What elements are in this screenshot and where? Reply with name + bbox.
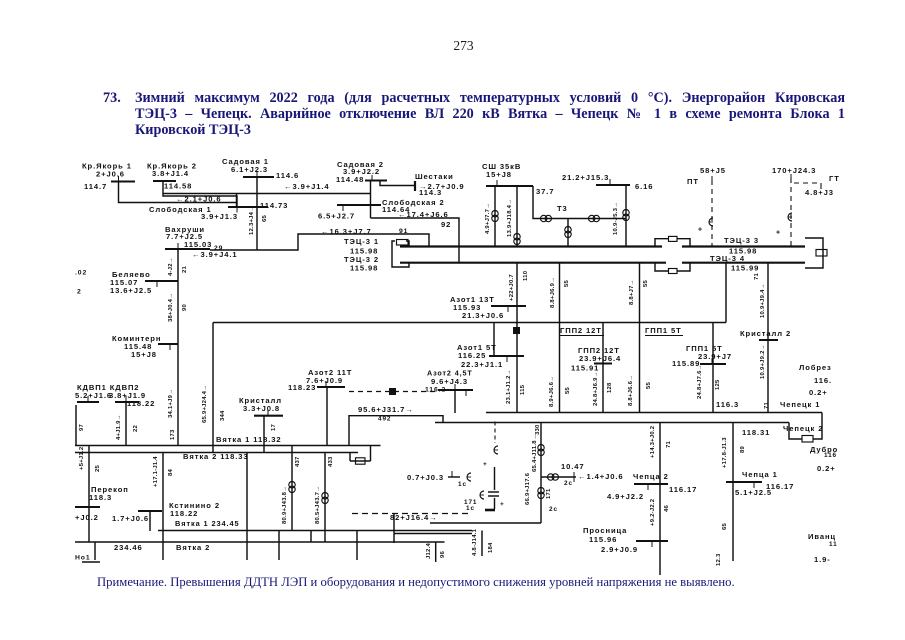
- svg-text:Чепца 1: Чепца 1: [742, 470, 778, 479]
- breaker bypass mid top: [655, 239, 669, 247]
- wire Кр.Якорь 1 - Слободская 1: [119, 182, 237, 203]
- svg-text:+: +: [698, 227, 703, 234]
- svg-text:Вятка 2: Вятка 2: [176, 543, 210, 552]
- svg-text:10.9+J9.2→: 10.9+J9.2→: [760, 344, 766, 379]
- svg-text:8.8+J6.6→: 8.8+J6.6→: [628, 375, 634, 406]
- svg-text:118.22: 118.22: [127, 399, 155, 408]
- svg-text:ТЭЦ-3 4: ТЭЦ-3 4: [710, 254, 745, 263]
- svg-text:55: 55: [565, 386, 571, 394]
- svg-text:96: 96: [440, 550, 446, 558]
- svg-text:3.8+J1.4: 3.8+J1.4: [152, 169, 189, 178]
- svg-text:65.9+J24.4→: 65.9+J24.4→: [202, 385, 208, 423]
- svg-text:114.7: 114.7: [84, 182, 107, 191]
- svg-text:+: +: [500, 501, 505, 508]
- svg-text:115.98: 115.98: [350, 263, 378, 272]
- svg-text:6.1+J2.3: 6.1+J2.3: [231, 165, 268, 174]
- svg-text:15+J8: 15+J8: [486, 170, 512, 179]
- svg-text:2: 2: [77, 288, 82, 295]
- wire Слободская 2 - ТЭЦ bus 92: [371, 218, 460, 263]
- svg-text:115.96: 115.96: [589, 535, 617, 544]
- svg-text:Шестаки: Шестаки: [415, 172, 454, 181]
- svg-text:116.17: 116.17: [669, 485, 697, 494]
- svg-text:1c: 1c: [466, 505, 475, 512]
- svg-text:80.5+J43.7→: 80.5+J43.7→: [315, 486, 321, 524]
- svg-text:115.89: 115.89: [672, 359, 700, 368]
- wire drop 437: [291, 446, 293, 531]
- wire 21.2 drop: [625, 185, 627, 247]
- svg-text:ПТ: ПТ: [687, 177, 699, 186]
- svg-text:37.7: 37.7: [536, 187, 554, 196]
- bus Вятка 2 234 line: [75, 541, 445, 543]
- svg-text:10.9-J5.3→: 10.9-J5.3→: [613, 202, 619, 235]
- svg-text:114.58: 114.58: [164, 181, 192, 190]
- svg-text:55: 55: [564, 279, 570, 287]
- svg-text:125: 125: [715, 379, 721, 390]
- svg-text:Иванц: Иванц: [808, 532, 836, 541]
- svg-text:Лобрез: Лобрез: [799, 363, 832, 372]
- wire feeder 84: [162, 453, 164, 561]
- wire Садовая 2 - Шестаки: [380, 181, 415, 186]
- svg-text:ТЭЦ-3 3: ТЭЦ-3 3: [724, 236, 759, 245]
- svg-text:23.9+J7: 23.9+J7: [698, 352, 732, 361]
- svg-text:←3.9+J1.4: ←3.9+J1.4: [284, 182, 329, 191]
- wire trunk 2c: [540, 423, 542, 524]
- svg-text:4.9+J2.2: 4.9+J2.2: [607, 492, 644, 501]
- svg-text:2c: 2c: [564, 480, 573, 487]
- svg-text:65: 65: [262, 214, 268, 222]
- svg-text:114.73: 114.73: [260, 201, 288, 210]
- svg-text:+9.2-J2.2: +9.2-J2.2: [650, 498, 656, 526]
- svg-text:0.2+: 0.2+: [817, 464, 836, 473]
- svg-text:115: 115: [520, 384, 526, 395]
- wire feeder ГПП2 12Т: [602, 323, 604, 413]
- svg-text:91: 91: [399, 228, 408, 235]
- svg-text:115.91: 115.91: [571, 363, 599, 372]
- wire КДВП1 drop: [75, 405, 77, 446]
- svg-text:97: 97: [79, 423, 85, 431]
- svg-text:Вятка 2 118.33: Вятка 2 118.33: [183, 452, 249, 461]
- breaker Чепецк loop: [789, 423, 802, 440]
- svg-text:2+J0.6: 2+J0.6: [96, 169, 125, 178]
- svg-text:114.48: 114.48: [336, 175, 364, 184]
- svg-text:←3.9+J4.1: ←3.9+J4.1: [192, 250, 237, 259]
- svg-text:34.1+J9→: 34.1+J9→: [168, 389, 174, 418]
- svg-text:21: 21: [182, 265, 188, 273]
- svg-text:Чепецк 1: Чепецк 1: [780, 400, 820, 409]
- svg-text:4.8+J3: 4.8+J3: [805, 188, 834, 197]
- svg-text:25: 25: [95, 464, 101, 472]
- svg-text:4.9+J7.7→: 4.9+J7.7→: [485, 203, 491, 234]
- svg-text:15+J8: 15+J8: [131, 350, 157, 359]
- svg-text:+22+J0.7: +22+J0.7: [509, 274, 515, 301]
- svg-text:ГПП1 5Т: ГПП1 5Т: [645, 326, 682, 335]
- svg-text:114.3: 114.3: [419, 188, 442, 197]
- wire Садовая 2 drop: [370, 181, 372, 219]
- svg-text:90: 90: [182, 303, 188, 311]
- wire Азот2 11Т drop: [326, 387, 328, 446]
- svg-text:Но1: Но1: [75, 554, 91, 561]
- svg-text:95.6+J31.7→: 95.6+J31.7→: [358, 405, 414, 414]
- svg-text:4.8-J14.1: 4.8-J14.1: [472, 528, 478, 556]
- svg-text:65.4+J11.8→: 65.4+J11.8→: [532, 434, 538, 472]
- svg-text:13.9+J18.4→: 13.9+J18.4→: [507, 199, 513, 237]
- svg-text:9.6+J4.3: 9.6+J4.3: [431, 377, 468, 386]
- svg-text:65: 65: [722, 522, 728, 530]
- svg-text:116.: 116.: [814, 376, 832, 385]
- svg-text:114.6: 114.6: [276, 171, 299, 180]
- svg-text:17: 17: [271, 423, 277, 431]
- breaker Вятка loop: [349, 453, 351, 462]
- svg-text:←1.4+J0.6: ←1.4+J0.6: [578, 472, 623, 481]
- generator 2: [480, 491, 484, 499]
- svg-text:184: 184: [488, 542, 494, 553]
- bus Чепецк 2 line: [435, 422, 789, 424]
- svg-text:24.8+J6.9→: 24.8+J6.9→: [593, 371, 599, 406]
- svg-text:.02: .02: [75, 269, 87, 276]
- svg-text:J12.4: J12.4: [426, 543, 432, 559]
- svg-text:330: 330: [535, 424, 541, 435]
- svg-text:116.25: 116.25: [458, 351, 486, 360]
- svg-text:80.9+J43.8→: 80.9+J43.8→: [282, 486, 288, 524]
- svg-text:71: 71: [754, 272, 760, 280]
- svg-text:22.3+J1.1: 22.3+J1.1: [461, 360, 503, 369]
- svg-text:116.3: 116.3: [716, 400, 739, 409]
- svg-text:Т3: Т3: [557, 204, 568, 213]
- svg-text:Просница: Просница: [583, 526, 627, 535]
- svg-text:8.9+J6.6→: 8.9+J6.6→: [549, 376, 555, 407]
- svg-text:+14.3+J0.2: +14.3+J0.2: [650, 425, 656, 458]
- svg-text:0.7+J0.3: 0.7+J0.3: [407, 473, 444, 482]
- svg-text:38+J0.4→: 38+J0.4→: [168, 293, 174, 322]
- svg-text:3.9+J1.3: 3.9+J1.3: [201, 212, 238, 221]
- wire feeder 55 left: [559, 263, 561, 413]
- svg-text:110: 110: [523, 270, 529, 281]
- svg-text:92: 92: [441, 220, 451, 229]
- svg-text:21.3+J0.6: 21.3+J0.6: [462, 311, 504, 320]
- svg-text:2c: 2c: [549, 506, 558, 513]
- stub x95: [94, 542, 96, 560]
- svg-text:118.22: 118.22: [170, 509, 198, 518]
- generator capacitor branch: [494, 467, 496, 490]
- svg-text:55: 55: [643, 279, 649, 287]
- svg-text:+5+J1.2: +5+J1.2: [79, 446, 85, 470]
- svg-text:←2.1+J0.6: ←2.1+J0.6: [176, 194, 221, 203]
- wire Кристалл drop: [263, 416, 265, 453]
- svg-text:344: 344: [220, 410, 226, 421]
- svg-text:21.2+J15.3: 21.2+J15.3: [562, 173, 609, 182]
- svg-text:ТЭЦ-3 1: ТЭЦ-3 1: [344, 237, 379, 246]
- svg-text:58+J5: 58+J5: [700, 166, 726, 175]
- svg-text:←16.3+J7.7: ←16.3+J7.7: [321, 227, 372, 236]
- bus Вятка 1 234 line: [158, 530, 472, 532]
- svg-text:170+J24.3: 170+J24.3: [772, 166, 816, 175]
- wire drop x247: [246, 453, 248, 561]
- svg-text:116: 116: [824, 452, 837, 459]
- bus Чепецк 1 line: [486, 412, 822, 414]
- bus Вятка 2 line: [75, 452, 358, 454]
- svg-text:12.3: 12.3: [716, 553, 722, 566]
- svg-text:115.99: 115.99: [731, 263, 759, 272]
- svg-text:234.46: 234.46: [114, 543, 143, 552]
- wire Перекоп feeder: [88, 446, 90, 543]
- wire Вахруши - ТЭЦ-3 91: [210, 234, 429, 250]
- svg-text:3.3+J0.8: 3.3+J0.8: [243, 404, 280, 413]
- bus parallel right segment: [394, 533, 472, 535]
- svg-text:13.6+J2.5: 13.6+J2.5: [110, 286, 152, 295]
- wire КДВП2 drop: [125, 402, 127, 446]
- stub x357: [356, 531, 358, 561]
- wire feeder Кристалл 2: [767, 263, 769, 413]
- wire feeder 55 right: [639, 263, 641, 413]
- svg-text:+J0.2: +J0.2: [75, 513, 99, 522]
- svg-text:8.8+J7→: 8.8+J7→: [629, 279, 635, 305]
- svg-text:4+J1.9→: 4+J1.9→: [116, 414, 122, 440]
- wire Кр.Якорь 2 drop: [163, 181, 237, 208]
- svg-text:Вятка 1 118.32: Вятка 1 118.32: [216, 435, 282, 444]
- wire feeder Чепца 2: [659, 423, 661, 576]
- svg-text:24.8+J7.6→: 24.8+J7.6→: [697, 364, 703, 399]
- svg-text:118.3: 118.3: [89, 493, 112, 502]
- svg-text:Вятка 1 234.45: Вятка 1 234.45: [175, 519, 240, 528]
- svg-text:8.8+J6.9→: 8.8+J6.9→: [550, 277, 556, 308]
- wire dashed drop 1c: [494, 422, 496, 444]
- svg-text:+: +: [483, 461, 488, 468]
- wire Слободская 1 - Садовая 2: [163, 193, 371, 195]
- svg-text:5.1+J2.5: 5.1+J2.5: [735, 488, 772, 497]
- svg-text:118.31: 118.31: [742, 428, 770, 437]
- wire feeder ГПП1 5Т: [712, 323, 714, 413]
- svg-text:492: 492: [378, 416, 391, 423]
- svg-text:71: 71: [764, 401, 770, 409]
- svg-text:23.1+J1.2→: 23.1+J1.2→: [506, 369, 512, 404]
- svg-text:115.03: 115.03: [184, 240, 212, 249]
- svg-text:ГПП2 12Т: ГПП2 12Т: [560, 326, 602, 335]
- svg-text:+17.8-J1.3: +17.8-J1.3: [722, 437, 728, 468]
- svg-text:55: 55: [646, 381, 652, 389]
- wire drop x279: [278, 531, 280, 561]
- svg-text:1c: 1c: [458, 481, 467, 488]
- svg-text:10.9+J9.4→: 10.9+J9.4→: [760, 283, 766, 318]
- svg-text:118.23: 118.23: [288, 383, 316, 392]
- wire drop 184: [481, 531, 483, 557]
- wire Кстинино drop: [149, 511, 151, 531]
- svg-text:128: 128: [607, 382, 613, 393]
- wire feeder Азот1: [516, 263, 518, 413]
- svg-text:71: 71: [666, 440, 672, 448]
- svg-text:5.2+J1.6: 5.2+J1.6: [75, 391, 112, 400]
- svg-text:1.7+J0.6: 1.7+J0.6: [112, 514, 149, 523]
- wire СШ drop 13.9: [516, 186, 518, 247]
- svg-text:433: 433: [328, 456, 334, 467]
- svg-text:Чепца 2: Чепца 2: [633, 472, 669, 481]
- wire dashed 82+J16.4: [352, 513, 470, 515]
- svg-text:84: 84: [168, 468, 174, 476]
- wire Т3 drop: [567, 219, 569, 247]
- wire main left vertical: [177, 249, 179, 446]
- svg-text:82+J16.4→: 82+J16.4→: [390, 513, 438, 522]
- wire Т3 ladder: [533, 186, 626, 219]
- bracket right end: [805, 238, 823, 268]
- svg-text:173: 173: [170, 429, 176, 440]
- svg-text:4-J2→: 4-J2→: [168, 257, 174, 276]
- svg-text:+17.1-J1.4: +17.1-J1.4: [153, 456, 159, 487]
- svg-text:1.9-: 1.9-: [814, 555, 831, 564]
- wire drop x394: [393, 514, 395, 544]
- svg-text:ГТ: ГТ: [829, 174, 840, 183]
- svg-text:6.5+J2.7: 6.5+J2.7: [318, 211, 355, 220]
- bus ТЭЦ-3 section 4 (bottom): [400, 262, 666, 264]
- wire feeder 116.3: [725, 263, 727, 323]
- bus ТЭЦ-3 section 3 (top): [400, 245, 662, 247]
- svg-text:2.9+J0.9: 2.9+J0.9: [601, 545, 638, 554]
- svg-text:22: 22: [133, 424, 139, 432]
- svg-text:10.47: 10.47: [561, 462, 585, 471]
- svg-text:66.9+J17.6: 66.9+J17.6: [525, 472, 531, 505]
- svg-text:11: 11: [829, 541, 838, 548]
- svg-text:171: 171: [546, 488, 552, 499]
- svg-text:12.3+J4→: 12.3+J4→: [249, 206, 255, 235]
- svg-text:+: +: [776, 230, 781, 237]
- wire drop 433: [324, 453, 326, 543]
- svg-text:89: 89: [740, 445, 746, 453]
- svg-text:0.2+: 0.2+: [809, 388, 828, 397]
- wire lower link: [430, 522, 541, 524]
- svg-text:437: 437: [295, 456, 301, 467]
- wire dashed Азот2 tie: [349, 391, 436, 393]
- wire СШ drop 4.9: [494, 186, 496, 247]
- svg-text:6.16: 6.16: [635, 182, 653, 191]
- wire Азот2 4.5Т drop: [454, 390, 456, 413]
- wire Садовая 1 feeder: [256, 177, 258, 250]
- wire tie line 110kV upper: [212, 323, 214, 453]
- svg-text:46: 46: [664, 504, 670, 512]
- wire drop 96: [435, 542, 437, 562]
- svg-text:Кристалл 2: Кристалл 2: [740, 329, 791, 338]
- wire Азот1 5Т drop: [493, 323, 495, 357]
- wire feeder Чепца 1: [732, 423, 734, 562]
- svg-text:23.9+J6.4: 23.9+J6.4: [579, 354, 621, 363]
- wire drop x311: [310, 531, 312, 543]
- breaker bypass mid bottom: [655, 263, 669, 271]
- bus Вятка 1 line: [75, 445, 381, 447]
